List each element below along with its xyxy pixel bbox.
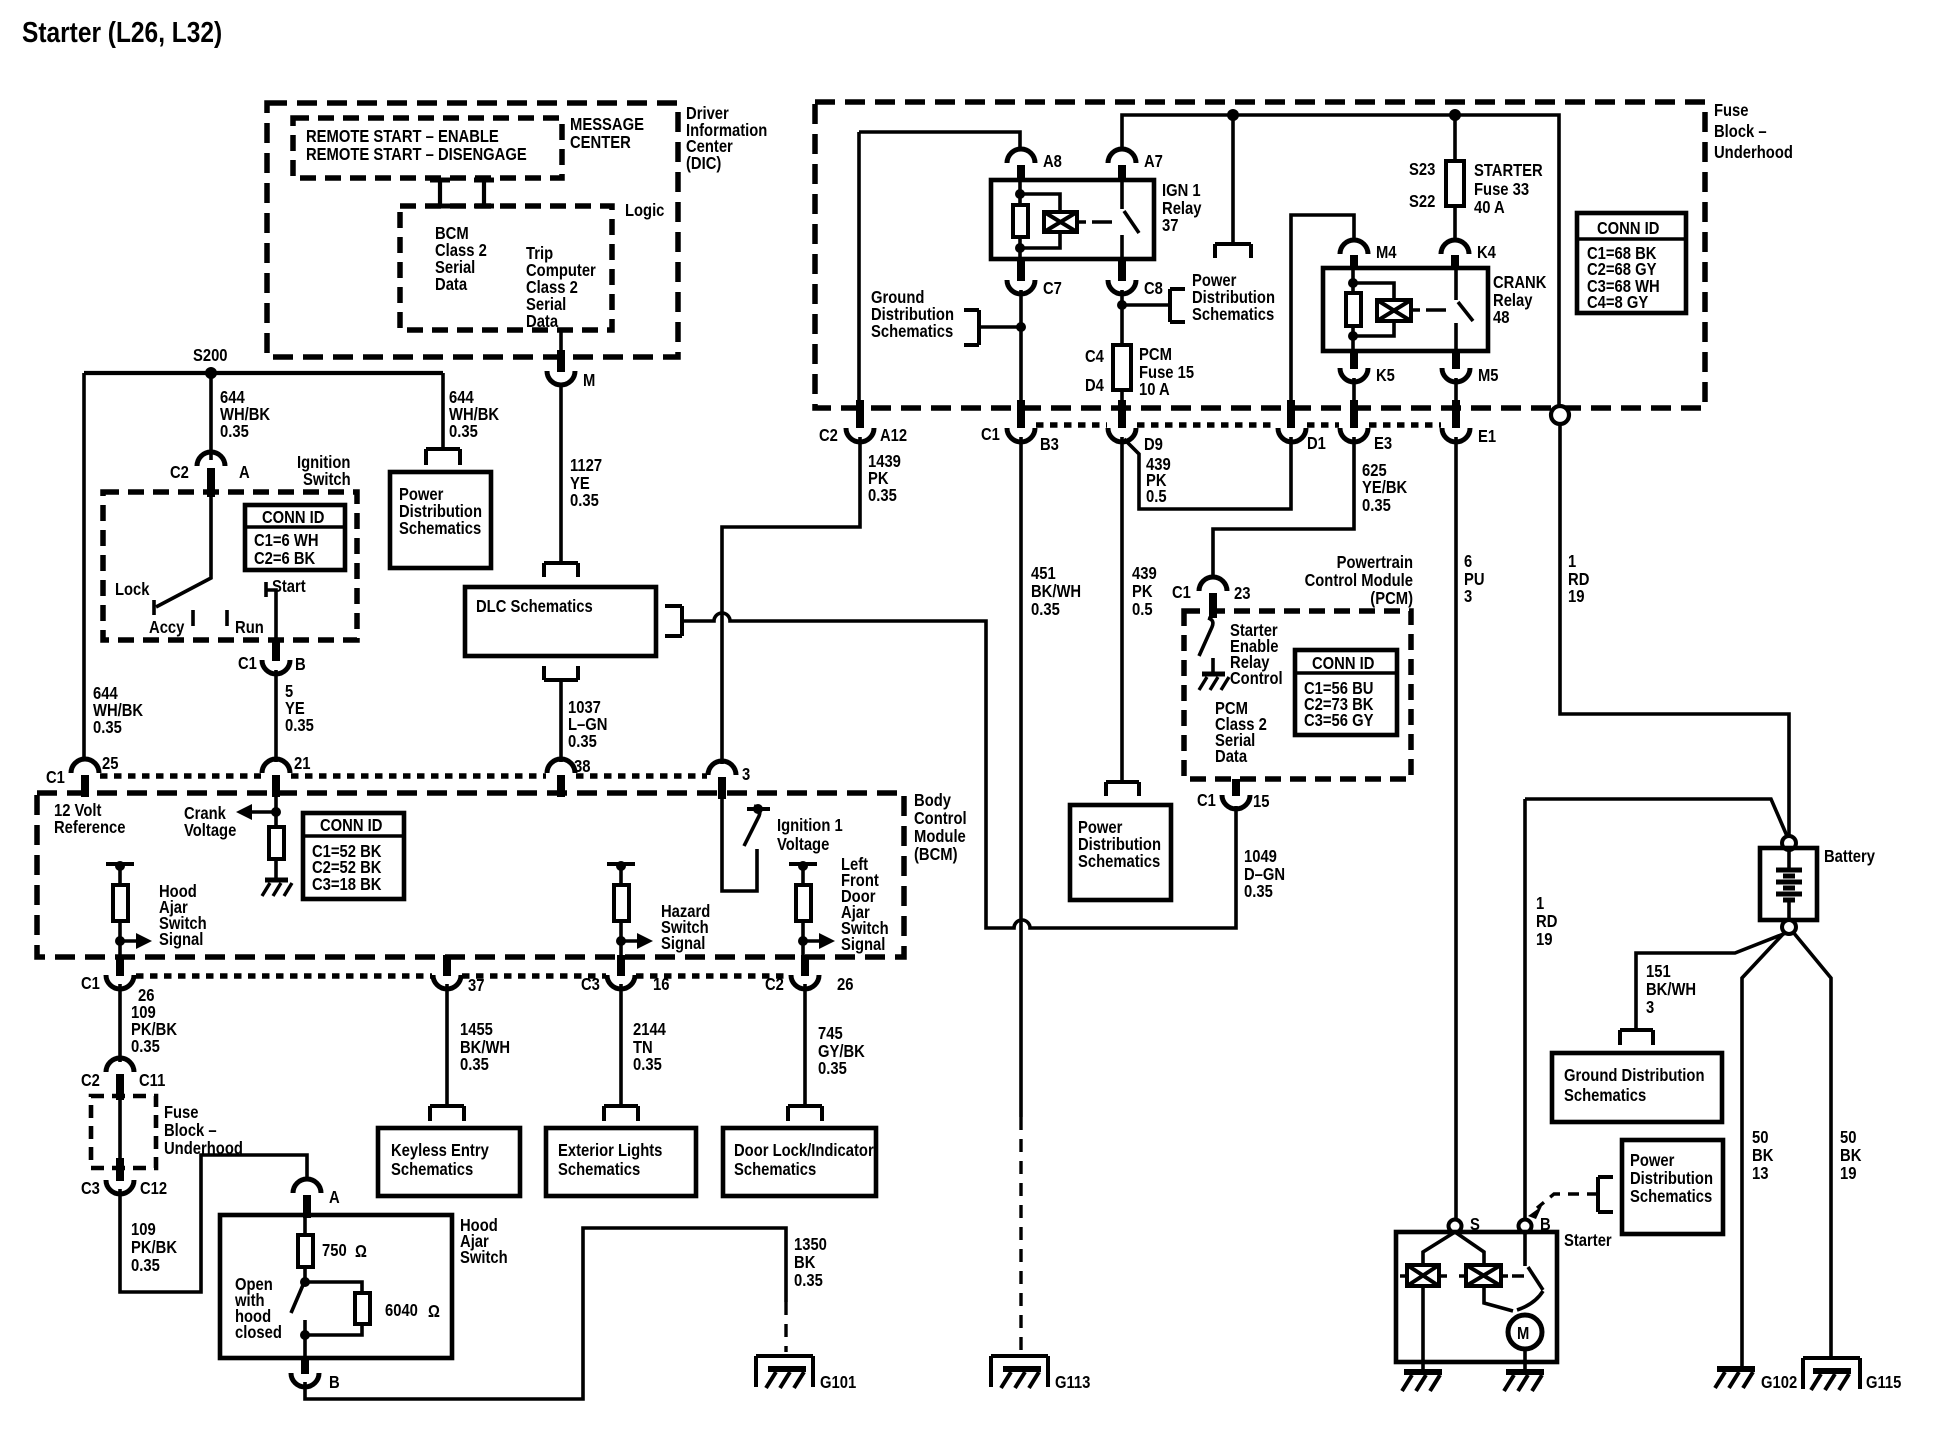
- svg-text:A: A: [329, 1187, 340, 1207]
- svg-text:Ω: Ω: [355, 1241, 367, 1261]
- svg-text:B3: B3: [1040, 434, 1059, 454]
- svg-text:C4=8 GY: C4=8 GY: [1587, 292, 1648, 312]
- connector M4 pin: [1350, 255, 1358, 270]
- svg-text:0.35: 0.35: [794, 1270, 823, 1290]
- svg-text:Schematics: Schematics: [1192, 304, 1274, 324]
- terminal S circle: [1449, 1220, 1462, 1233]
- svg-text:0.35: 0.35: [449, 421, 478, 441]
- connector C3 16 pin: [617, 955, 625, 976]
- connector C1 15 pin: [1232, 779, 1240, 796]
- junction dots relay coil: [1015, 189, 1025, 199]
- dashed wire to G101: [784, 1302, 787, 1352]
- svg-text:Exterior Lights: Exterior Lights: [558, 1140, 663, 1160]
- ignition switch blade wire: [156, 497, 211, 607]
- wire C3 C12 down over and up to hood ajar switch A: [120, 1155, 307, 1292]
- ignition 1 voltage top contact: [747, 807, 770, 811]
- svg-text:Switch: Switch: [303, 469, 351, 489]
- stub serifs: [430, 180, 494, 206]
- wire M down to DLC: [559, 385, 563, 563]
- svg-text:DLC Schematics: DLC Schematics: [476, 596, 593, 616]
- wire E3 down and over to PCM C1 23: [1213, 437, 1354, 578]
- CONN ID box (ignition switch): [245, 505, 345, 570]
- wire S200 horizontal rail: [84, 371, 443, 375]
- wire C7 down to B3 row: [1019, 290, 1023, 405]
- svg-text:0.35: 0.35: [1362, 495, 1391, 515]
- svg-text:37: 37: [1162, 215, 1179, 235]
- svg-text:C2: C2: [81, 1070, 100, 1090]
- Body Control Module dashed box: [37, 793, 904, 957]
- contact Accy tick: [191, 610, 195, 626]
- Driver Information Center (DIC) dashed box: [267, 103, 678, 357]
- connector D1 cup: [1278, 428, 1306, 442]
- wire horizontal to C1 15 (with hop over B3 wire): [986, 806, 1236, 928]
- svg-text:K4: K4: [1477, 242, 1496, 262]
- connector C2 A12 pin: [856, 400, 864, 428]
- connector M cup: [547, 371, 575, 385]
- dotted connector row under fuse block: [1036, 422, 1441, 428]
- svg-text:151: 151: [1646, 961, 1671, 981]
- svg-text:Power: Power: [1630, 1150, 1675, 1170]
- arrowhead leader: [1528, 1206, 1542, 1219]
- svg-text:16: 16: [653, 974, 670, 994]
- bracket ground distribution: [964, 310, 979, 345]
- starter solenoid 1 X-box: [1407, 1265, 1439, 1286]
- svg-text:CONN ID: CONN ID: [320, 815, 382, 835]
- svg-text:BK/WH: BK/WH: [1646, 979, 1696, 999]
- wire B over and up to 1350 BK net: [305, 1228, 786, 1399]
- connector C2 A12 cup: [846, 428, 874, 442]
- svg-text:Control: Control: [914, 808, 967, 828]
- svg-text:0.35: 0.35: [868, 485, 897, 505]
- wire rail branch to power distribution fork: [1231, 115, 1235, 244]
- starter switch blade: [1523, 1232, 1527, 1266]
- wire DLC bottom to 38: [559, 680, 563, 762]
- svg-text:0.35: 0.35: [568, 731, 597, 751]
- svg-text:(BCM): (BCM): [914, 844, 958, 864]
- svg-text:CRANK: CRANK: [1493, 272, 1547, 292]
- connector K4 pin: [1451, 255, 1459, 270]
- svg-text:C2: C2: [170, 462, 189, 482]
- ignition 1 voltage blade: [744, 806, 760, 846]
- svg-text:Powertrain: Powertrain: [1337, 552, 1413, 572]
- receptacle power distribution fork: [1215, 244, 1251, 258]
- junction on C7 net: [1016, 322, 1026, 332]
- connector C7 pin: [1017, 259, 1025, 281]
- svg-text:Schematics: Schematics: [1078, 851, 1160, 871]
- wire fuse block splice down to starter B: [1523, 799, 1527, 1220]
- svg-text:19: 19: [1536, 929, 1553, 949]
- connector C1 B3 pin: [1017, 400, 1025, 428]
- svg-text:Starter: Starter: [1564, 1230, 1612, 1250]
- svg-text:G101: G101: [820, 1372, 856, 1392]
- crank relay coil resistor: [1351, 270, 1355, 293]
- box Ground Distribution Schematics: [1552, 1053, 1722, 1122]
- svg-text:BK: BK: [794, 1252, 816, 1272]
- connector C2 A cup: [197, 452, 225, 466]
- connector C1 B cup: [262, 660, 290, 674]
- svg-text:Body: Body: [914, 790, 951, 810]
- left front door internal wire T-bar: [789, 862, 817, 866]
- connector M5 pin: [1452, 351, 1460, 369]
- box DLC Schematics: [465, 587, 656, 656]
- dotted connector row BCM bottom: [136, 973, 790, 979]
- resistor 6040 ohm branch: [305, 1282, 362, 1293]
- svg-text:CONN ID: CONN ID: [1597, 218, 1659, 238]
- wire logic box to M connector: [559, 330, 563, 352]
- svg-text:B: B: [295, 654, 306, 674]
- junction on rail: [1227, 109, 1239, 121]
- wire top rail A7 to right corner: [1122, 115, 1559, 406]
- svg-text:CONN ID: CONN ID: [262, 507, 324, 527]
- svg-text:PK/BK: PK/BK: [131, 1237, 177, 1257]
- svg-text:A12: A12: [880, 425, 907, 445]
- svg-text:A8: A8: [1043, 151, 1062, 171]
- svg-text:BK: BK: [1840, 1145, 1862, 1165]
- bracket power distribution: [1170, 289, 1185, 322]
- wire C3 16 down to exterior lights box: [619, 984, 623, 1106]
- hood ajar arrow: [115, 936, 125, 946]
- svg-text:E3: E3: [1374, 433, 1392, 453]
- box Starter: [1396, 1232, 1557, 1362]
- crank voltage arrow: [236, 804, 252, 820]
- connector C1 25 pin: [81, 775, 89, 797]
- wire K5 to E3: [1352, 378, 1356, 405]
- svg-text:451: 451: [1031, 563, 1056, 583]
- wire E1 down to starter S: [1454, 437, 1458, 1220]
- junction dots crank coil: [1348, 278, 1358, 288]
- connector K5 pin: [1350, 351, 1358, 369]
- svg-text:C2=6 BK: C2=6 BK: [254, 548, 315, 568]
- svg-text:Fuse 33: Fuse 33: [1474, 179, 1529, 199]
- svg-text:0.35: 0.35: [1244, 881, 1273, 901]
- junction S200: [205, 367, 217, 379]
- wire A12 down and over to BCM pin 3: [722, 437, 860, 764]
- relay K CRANK Relay 48 box: [1323, 268, 1488, 351]
- svg-text:0.5: 0.5: [1132, 599, 1153, 619]
- connector D1 pin: [1287, 400, 1295, 428]
- MESSAGE CENTER dashed box: [293, 118, 562, 178]
- svg-text:745: 745: [818, 1023, 843, 1043]
- connector A pin: [303, 1195, 311, 1218]
- box Keyless Entry Schematics: [378, 1128, 520, 1196]
- svg-text:0.35: 0.35: [131, 1255, 160, 1275]
- resistor (crank voltage): [274, 797, 278, 827]
- svg-text:0.35: 0.35: [818, 1058, 847, 1078]
- svg-text:Data: Data: [435, 274, 467, 294]
- box Power Distribution Schematics (middle): [1070, 805, 1171, 900]
- resistor (hazard): [614, 885, 629, 921]
- svg-text:Switch: Switch: [460, 1247, 508, 1267]
- left front door arrow: [798, 936, 808, 946]
- svg-text:CONN ID: CONN ID: [1312, 653, 1374, 673]
- svg-text:Ω: Ω: [428, 1301, 440, 1321]
- svg-text:D9: D9: [1144, 434, 1163, 454]
- ground (starter enable): [1202, 672, 1225, 677]
- connector E1 pin: [1452, 400, 1460, 428]
- svg-text:37: 37: [468, 975, 485, 995]
- connector C2 A pin: [207, 468, 215, 497]
- resistor (left front door): [796, 885, 811, 921]
- dashed leader to starter B: [1537, 1194, 1598, 1208]
- svg-text:Keyless Entry: Keyless Entry: [391, 1140, 489, 1160]
- wire M5 to E1: [1454, 378, 1458, 405]
- svg-text:D1: D1: [1307, 433, 1326, 453]
- connector C1 26 cup: [106, 975, 134, 989]
- svg-text:BK: BK: [1752, 1145, 1774, 1165]
- svg-text:(PCM): (PCM): [1370, 588, 1413, 608]
- svg-text:3: 3: [742, 764, 750, 784]
- connector K4 cup: [1441, 240, 1469, 254]
- receptacle out of DLC box bottom: [544, 666, 578, 680]
- crank actuator dashed link: [1411, 308, 1446, 312]
- connector C2 26 pin: [801, 955, 809, 976]
- Powertrain Control Module dashed box: [1184, 611, 1411, 779]
- box Exterior Lights Schematics: [546, 1128, 696, 1196]
- wire DLC to PCM class2 net (with hop over pin3 wire): [682, 613, 986, 920]
- svg-text:Voltage: Voltage: [777, 834, 830, 854]
- svg-text:439: 439: [1132, 563, 1157, 583]
- wire junction to power distribution bracket: [1122, 303, 1170, 307]
- svg-text:S200: S200: [193, 345, 228, 365]
- connector C1 23 pin: [1209, 593, 1217, 618]
- wire C2 26 down to door lock box: [803, 984, 807, 1106]
- connector D9 pin: [1118, 400, 1126, 428]
- svg-text:48: 48: [1493, 307, 1510, 327]
- svg-text:C1: C1: [981, 424, 1000, 444]
- connector E1 cup: [1442, 428, 1470, 442]
- relay U IGN 1 Relay 37 box: [991, 180, 1154, 259]
- Fuse Block - Underhood small dashed box: [91, 1096, 156, 1168]
- connector C2 C11 pin: [116, 1074, 124, 1100]
- wire motor to ground: [1523, 1349, 1527, 1372]
- svg-text:50: 50: [1752, 1127, 1769, 1147]
- wire starter fuse to K4: [1453, 206, 1457, 241]
- svg-text:1: 1: [1568, 551, 1576, 571]
- wire Start down to C1 B: [266, 590, 276, 640]
- bracket power distribution (starter): [1598, 1177, 1613, 1212]
- svg-text:26: 26: [837, 974, 854, 994]
- svg-text:23: 23: [1234, 583, 1251, 603]
- svg-text:Signal: Signal: [841, 934, 885, 954]
- terminal B circle: [1519, 1220, 1532, 1233]
- svg-text:1350: 1350: [794, 1234, 827, 1254]
- svg-text:S22: S22: [1409, 191, 1436, 211]
- svg-text:D4: D4: [1085, 375, 1104, 395]
- svg-text:Schematics: Schematics: [871, 321, 953, 341]
- bracket DLC right side: [665, 606, 682, 636]
- svg-text:1127: 1127: [570, 455, 602, 475]
- ground G113: [991, 1356, 1048, 1387]
- svg-text:Data: Data: [1215, 746, 1247, 766]
- battery box: [1760, 848, 1817, 920]
- svg-text:10 A: 10 A: [1139, 379, 1170, 399]
- splice open circle on feed wire: [1551, 406, 1569, 424]
- connector D9 cup: [1108, 428, 1136, 442]
- svg-text:closed: closed: [235, 1322, 282, 1342]
- CONN ID box (BCM): [303, 813, 404, 899]
- svg-text:0.35: 0.35: [285, 715, 314, 735]
- ground (starter solenoid): [1404, 1369, 1442, 1375]
- box Door Lock/Indicator Schematics: [723, 1128, 876, 1196]
- connector C8 cup: [1108, 280, 1136, 294]
- svg-text:Schematics: Schematics: [399, 518, 481, 538]
- svg-text:G113: G113: [1055, 1372, 1091, 1392]
- svg-text:Run: Run: [235, 617, 264, 637]
- junction hood switch bottom: [300, 1330, 310, 1340]
- contact Run tick: [225, 610, 229, 626]
- svg-text:PK: PK: [1132, 581, 1153, 601]
- svg-text:M5: M5: [1478, 365, 1499, 385]
- connector A7 cup: [1108, 149, 1136, 163]
- svg-text:40 A: 40 A: [1474, 197, 1505, 217]
- box Hood Ajar Switch: [220, 1215, 452, 1358]
- box Power Distribution Schematics (starter): [1622, 1140, 1723, 1234]
- CONN ID box (PCM): [1295, 650, 1397, 735]
- ground (starter motor): [1506, 1369, 1544, 1375]
- battery cells: [1787, 850, 1791, 870]
- svg-text:Lock: Lock: [115, 579, 150, 599]
- svg-text:C3=18 BK: C3=18 BK: [312, 874, 382, 894]
- svg-text:C2: C2: [819, 425, 838, 445]
- svg-text:Schematics: Schematics: [1564, 1085, 1646, 1105]
- svg-text:C2: C2: [765, 974, 784, 994]
- starter enable lower contact: [1211, 658, 1215, 673]
- svg-text:M4: M4: [1376, 242, 1397, 262]
- svg-text:Underhood: Underhood: [1714, 142, 1793, 162]
- svg-text:Signal: Signal: [661, 933, 705, 953]
- svg-text:C1=6 WH: C1=6 WH: [254, 530, 319, 550]
- svg-text:0.35: 0.35: [570, 490, 599, 510]
- receptacle into exterior lights box: [604, 1106, 638, 1121]
- svg-text:(DIC): (DIC): [686, 153, 721, 173]
- svg-text:Control Module: Control Module: [1305, 570, 1414, 590]
- svg-text:Data: Data: [526, 311, 558, 331]
- wire battery to G102: [1742, 932, 1785, 1368]
- svg-text:C11: C11: [139, 1070, 166, 1090]
- svg-text:0.35: 0.35: [460, 1054, 489, 1074]
- fuse F Starter Fuse 33: [1446, 161, 1464, 206]
- svg-text:PCM: PCM: [1139, 344, 1172, 364]
- connector C1 26 pin: [116, 955, 124, 976]
- contact Start tick: [264, 582, 268, 597]
- receptacle into Power Distribution Schematics box: [426, 449, 460, 465]
- connector 21 pin: [272, 775, 280, 797]
- svg-text:Schematics: Schematics: [1630, 1186, 1712, 1206]
- svg-text:Fuse: Fuse: [1714, 100, 1749, 120]
- connector K5 cup: [1340, 368, 1368, 382]
- wire message center to logic stub 2: [482, 179, 486, 207]
- resistor 750 ohm: [303, 1215, 307, 1235]
- svg-text:G102: G102: [1761, 1372, 1797, 1392]
- connector 37 cup: [433, 975, 461, 989]
- wire C1 26 down: [118, 984, 122, 1062]
- dashed wire B3 net to G113: [1019, 1117, 1022, 1352]
- starter S fan wires: [1423, 1232, 1455, 1265]
- ground (crank voltage): [265, 878, 288, 883]
- svg-text:E1: E1: [1478, 426, 1496, 446]
- svg-text:C12: C12: [140, 1178, 167, 1198]
- wire right branch down to PDS box: [441, 373, 445, 449]
- svg-text:3: 3: [1646, 997, 1654, 1017]
- connector M pin: [557, 350, 565, 372]
- connector C1 25 cup: [71, 759, 99, 773]
- wire S200 down to ignition switch: [209, 373, 213, 460]
- ground G102: [1717, 1366, 1755, 1372]
- svg-text:C7: C7: [1043, 278, 1062, 298]
- svg-text:K5: K5: [1376, 365, 1395, 385]
- svg-text:0.35: 0.35: [93, 717, 122, 737]
- svg-text:0.35: 0.35: [220, 421, 249, 441]
- svg-text:B: B: [329, 1372, 340, 1392]
- motor M circle: [1508, 1315, 1542, 1349]
- svg-text:M: M: [583, 370, 595, 390]
- svg-text:0.5: 0.5: [1146, 486, 1167, 506]
- connector 21 cup: [262, 759, 290, 773]
- resistor (hood ajar): [113, 885, 128, 921]
- connector C3 C12 pin: [116, 1158, 124, 1181]
- svg-text:2144: 2144: [633, 1019, 666, 1039]
- wire rail down to starter fuse: [1453, 115, 1457, 161]
- connector 3 pin: [718, 777, 726, 799]
- connector C1 B3 cup: [1007, 428, 1035, 442]
- svg-text:BK/WH: BK/WH: [1031, 581, 1081, 601]
- svg-text:Signal: Signal: [159, 929, 203, 949]
- wire solenoid 1 to ground: [1421, 1286, 1425, 1372]
- wire A12 vertical inside fuse block: [857, 132, 861, 405]
- relay actuator dashed link: [1077, 220, 1112, 224]
- Logic dashed box: [400, 206, 612, 330]
- hood switch blade: [291, 1285, 303, 1313]
- wire battery to ground distribution (151 net): [1636, 933, 1786, 1030]
- connector A8 cup: [1007, 149, 1035, 163]
- svg-text:Battery: Battery: [1824, 846, 1875, 866]
- wire solenoid 2 to motor: [1484, 1286, 1513, 1311]
- wire 37 down to keyless box: [445, 984, 449, 1106]
- svg-text:38: 38: [574, 756, 591, 776]
- junction hood switch top: [300, 1277, 310, 1287]
- receptacle into door lock box: [788, 1106, 822, 1121]
- wire D1 feed up and over to M4: [1291, 215, 1354, 405]
- crank solenoid X-box: [1377, 300, 1411, 321]
- connector C1 15 cup: [1222, 795, 1250, 809]
- svg-text:Block –: Block –: [164, 1120, 217, 1140]
- connector M5 cup: [1442, 368, 1470, 382]
- svg-text:Control: Control: [1230, 668, 1283, 688]
- svg-text:Schematics: Schematics: [734, 1159, 816, 1179]
- svg-text:0.35: 0.35: [633, 1054, 662, 1074]
- receptacle into DLC box: [544, 563, 578, 577]
- svg-text:13: 13: [1752, 1163, 1769, 1183]
- relay solenoid branch: [1020, 194, 1060, 212]
- svg-text:15: 15: [1253, 791, 1270, 811]
- connector C2 26 cup: [791, 975, 819, 989]
- connector 3 cup: [708, 761, 736, 775]
- wire D9 jog to D1: [1124, 437, 1291, 509]
- svg-text:Distribution: Distribution: [1630, 1168, 1713, 1188]
- connector M4 cup: [1340, 240, 1368, 254]
- svg-text:REMOTE START – DISENGAGE: REMOTE START – DISENGAGE: [306, 144, 527, 164]
- connector E3 pin: [1350, 400, 1358, 428]
- connector 38 pin: [557, 775, 565, 797]
- wire bracket to C7 net: [979, 325, 1021, 329]
- Fuse Block - Underhood dashed box: [815, 102, 1705, 408]
- battery top circle: [1782, 836, 1796, 850]
- wire y799 rail to battery: [1525, 799, 1787, 836]
- wire C1 B down to 21: [274, 670, 278, 762]
- svg-text:MESSAGE: MESSAGE: [570, 114, 644, 134]
- ground G115: [1803, 1358, 1860, 1389]
- svg-text:Ignition 1: Ignition 1: [777, 815, 843, 835]
